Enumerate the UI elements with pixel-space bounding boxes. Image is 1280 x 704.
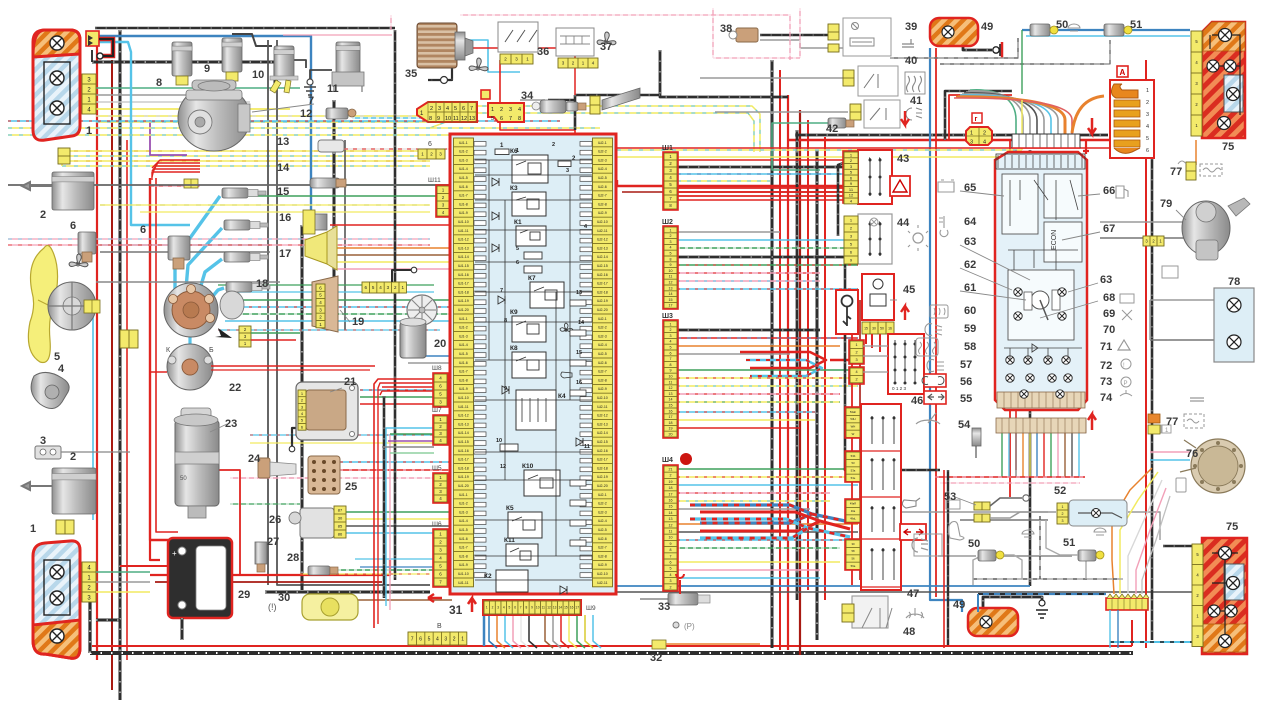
svg-text:15: 15 [669, 505, 673, 509]
svg-text:19: 19 [352, 316, 364, 328]
svg-text:15: 15 [669, 298, 673, 302]
svg-text:Ш2-6: Ш2-6 [598, 537, 607, 541]
wire wiper20 bundle [408, 355, 452, 357]
svg-text:39: 39 [905, 21, 917, 33]
relay K1 [516, 226, 546, 246]
heater icon 40 [907, 76, 922, 92]
svg-text:Ш2-9: Ш2-9 [598, 387, 607, 391]
svg-text:2: 2 [70, 451, 76, 463]
wire cyan mid-left vertical [92, 313, 94, 520]
svg-text:12: 12 [669, 386, 673, 390]
icon fuel pump 76 [1176, 478, 1186, 492]
svg-text:8: 8 [504, 318, 507, 324]
relay K7 [530, 282, 564, 308]
svg-text:Ш1-2: Ш1-2 [459, 150, 468, 154]
svg-text:Ш1-10: Ш1-10 [458, 572, 469, 576]
wire 49 vertical pair blue [930, 48, 962, 612]
sensor 33 lambda [640, 598, 668, 600]
svg-text:50: 50 [880, 326, 884, 330]
svg-text:15: 15 [576, 350, 582, 356]
svg-text:1: 1 [461, 636, 464, 642]
svg-text:11: 11 [542, 606, 546, 610]
arrow distributor [215, 328, 232, 338]
svg-text:Ш1-7: Ш1-7 [459, 546, 468, 550]
svg-text:4: 4 [670, 246, 672, 250]
svg-text:Ш1-14: Ш1-14 [458, 255, 469, 259]
svg-text:2: 2 [670, 234, 672, 238]
svg-text:2: 2 [855, 351, 857, 355]
svg-text:К8: К8 [510, 345, 518, 352]
svg-text:9: 9 [670, 542, 672, 546]
svg-text:В: В [437, 623, 442, 630]
fuel pump 2 top [52, 172, 94, 210]
svg-text:53ah: 53ah [850, 410, 857, 414]
svg-text:6: 6 [670, 351, 672, 355]
svg-text:Ш1-6: Ш1-6 [459, 537, 468, 541]
svg-text:1: 1 [516, 148, 519, 154]
svg-text:9: 9 [531, 606, 533, 610]
svg-text:7: 7 [411, 636, 414, 642]
svg-text:1: 1 [670, 228, 672, 232]
wire comb strip drops [1109, 610, 1111, 648]
wire black bus y136 [795, 134, 1108, 137]
icon turn 55 red [924, 391, 946, 404]
svg-text:Ш2-14: Ш2-14 [597, 431, 608, 435]
svg-text:5: 5 [670, 346, 672, 350]
wire 52 runs [900, 511, 1048, 513]
connector 53b [974, 514, 990, 522]
svg-text:3: 3 [670, 240, 672, 244]
svg-text:4: 4 [518, 107, 521, 113]
sensor 27 [255, 542, 267, 564]
resistors 77 top [1186, 162, 1196, 180]
svg-text:Ш2-4: Ш2-4 [598, 167, 607, 171]
wire spark plug cyan 2 [185, 228, 222, 300]
svg-text:62: 62 [964, 259, 976, 271]
svg-text:7: 7 [670, 554, 672, 558]
svg-text:11: 11 [669, 380, 673, 384]
svg-text:Ш2-10: Ш2-10 [597, 220, 608, 224]
svg-text:Ш2-3: Ш2-3 [598, 158, 607, 162]
cluster top pin row [998, 155, 1082, 168]
svg-text:49aR: 49aR [850, 502, 856, 506]
connector headlamp1 top [86, 31, 99, 46]
svg-text:Ш1-8: Ш1-8 [459, 202, 468, 206]
svg-text:Ш2-13: Ш2-13 [597, 246, 608, 250]
svg-text:Ш1-10: Ш1-10 [458, 396, 469, 400]
svg-text:Ш1-11: Ш1-11 [458, 405, 468, 409]
svg-text:5: 5 [670, 252, 672, 256]
cluster bottom tan strip [997, 392, 1085, 408]
svg-text:Ш1-3: Ш1-3 [459, 158, 468, 162]
svg-text:7: 7 [470, 106, 473, 112]
svg-text:16: 16 [570, 606, 574, 610]
svg-text:6: 6 [462, 106, 465, 112]
connector 321 right [1143, 236, 1164, 246]
fuse f10 [500, 444, 518, 451]
svg-text:Ш1-14: Ш1-14 [458, 431, 469, 435]
tail lamp 75 top [1202, 22, 1245, 138]
svg-text:Ш1-3: Ш1-3 [459, 510, 468, 514]
svg-text:51: 51 [1130, 19, 1142, 31]
svg-text:69: 69 [1103, 308, 1115, 320]
wire gray vert B [277, 40, 430, 585]
wire yellow bundle left [62, 150, 430, 152]
svg-text:3: 3 [670, 334, 672, 338]
wire trunk red 30 [824, 137, 826, 600]
svg-text:60: 60 [964, 305, 976, 317]
svg-text:Ш1-16: Ш1-16 [458, 273, 469, 277]
svg-text:7: 7 [520, 606, 522, 610]
svg-text:Ш1-20: Ш1-20 [458, 308, 469, 312]
wire bottom-left drop [88, 600, 91, 653]
fuse f5 [524, 252, 542, 259]
svg-text:14: 14 [669, 511, 673, 515]
connector 6pin [418, 149, 445, 159]
relay 40 [858, 66, 898, 96]
svg-text:19: 19 [669, 480, 673, 484]
svg-text:4: 4 [983, 140, 986, 146]
svg-text:11: 11 [669, 530, 673, 534]
svg-text:17: 17 [669, 415, 673, 419]
svg-text:15: 15 [277, 186, 289, 198]
svg-text:53: 53 [851, 461, 855, 465]
svg-text:11: 11 [584, 444, 590, 450]
svg-text:3: 3 [497, 606, 499, 610]
wire 34 black [548, 99, 575, 102]
svg-text:16: 16 [669, 409, 673, 413]
wire left trunk red [96, 40, 98, 660]
svg-text:Ш1-13: Ш1-13 [458, 246, 469, 250]
wire trunk black dash 3 [796, 130, 799, 600]
wire 79 feeds [1100, 221, 1185, 223]
sensor 12 [326, 108, 348, 119]
svg-text:16: 16 [888, 326, 892, 330]
svg-text:47: 47 [907, 588, 919, 600]
relay K4 [516, 390, 556, 430]
svg-text:Ш1-4: Ш1-4 [459, 343, 468, 347]
wire mid black verticals [574, 95, 577, 130]
svg-text:3: 3 [40, 435, 46, 447]
svg-text:К3: К3 [510, 185, 518, 192]
svg-text:6: 6 [70, 220, 76, 232]
valve 24 [258, 458, 270, 478]
svg-text:30: 30 [872, 326, 876, 330]
svg-text:Ш1-17: Ш1-17 [458, 458, 469, 462]
connector 19 [312, 276, 338, 332]
svg-text:Ш2-10: Ш2-10 [597, 572, 608, 576]
svg-text:55: 55 [960, 393, 972, 405]
diodes in box [492, 178, 499, 186]
svg-text:Ш1-18: Ш1-18 [458, 290, 469, 294]
svg-text:Ш2-17: Ш2-17 [597, 282, 608, 286]
svg-text:7: 7 [500, 288, 503, 294]
svg-text:5: 5 [516, 246, 519, 252]
red arrows misc [901, 306, 909, 320]
sensor 50 top [1030, 24, 1050, 36]
svg-text:Ш1-19: Ш1-19 [458, 299, 469, 303]
wire sh3 fan [677, 329, 820, 332]
relay K9 [512, 316, 546, 342]
svg-text:12: 12 [547, 606, 551, 610]
svg-text:Ш2-10: Ш2-10 [597, 396, 608, 400]
icon lowbeam 59 [925, 324, 942, 336]
svg-text:2: 2 [670, 328, 672, 332]
svg-text:Ш1-11: Ш1-11 [458, 581, 468, 585]
svg-text:40: 40 [905, 55, 917, 67]
wire q3 extra runs [250, 434, 440, 436]
wire alternator red fan [152, 160, 200, 168]
lamp 49 bottom [968, 608, 1018, 636]
svg-text:22: 22 [229, 382, 241, 394]
red key symbol [1083, 140, 1089, 154]
svg-text:5: 5 [54, 351, 60, 363]
connector B bottom [408, 632, 467, 645]
connector 18 [239, 326, 251, 347]
svg-text:Ш1-2: Ш1-2 [459, 502, 468, 506]
wire spark plug cyan 4 [207, 288, 224, 303]
wire 49a bundle blue/red [690, 505, 812, 523]
wire q1 extra yellows [100, 204, 430, 206]
spark plug 28 [308, 566, 330, 575]
icon seat 53 [948, 522, 964, 541]
svg-text:14: 14 [669, 398, 673, 402]
svg-text:16: 16 [669, 499, 673, 503]
svg-text:7: 7 [670, 357, 672, 361]
svg-text:Ш2-12: Ш2-12 [597, 414, 608, 418]
comb strip bottom-right [1106, 594, 1149, 610]
svg-text:1: 1 [1146, 88, 1149, 94]
svg-text:50: 50 [1056, 19, 1068, 31]
wire black dotted top y28 [95, 27, 395, 30]
svg-text:31: 31 [449, 603, 463, 617]
wire sh2 fan [677, 231, 780, 233]
starter 23 [174, 408, 219, 518]
connector B red [481, 90, 490, 99]
connector Sh8 [434, 374, 447, 406]
svg-text:11: 11 [327, 83, 339, 95]
connector Sh7 [434, 416, 447, 444]
wiper motor 20 [407, 295, 437, 325]
connector alt small [184, 179, 198, 188]
fuse block A [1110, 80, 1154, 158]
connector G [966, 113, 992, 146]
svg-text:43: 43 [897, 153, 909, 165]
svg-text:5: 5 [454, 106, 457, 112]
svg-text:К11: К11 [504, 537, 515, 544]
svg-text:4: 4 [855, 370, 857, 374]
svg-text:10: 10 [536, 606, 540, 610]
wire black seg vert C [301, 225, 304, 590]
plug 38 [736, 28, 758, 42]
wire 49top black [963, 42, 992, 50]
fuse box pin tabs [474, 142, 486, 147]
svg-text:11: 11 [453, 116, 459, 122]
svg-text:14: 14 [559, 606, 563, 610]
svg-text:6: 6 [428, 141, 432, 148]
wire bundle 25 area [340, 461, 452, 463]
svg-text:Ш2-16: Ш2-16 [597, 449, 608, 453]
svg-text:76: 76 [1186, 448, 1198, 460]
svg-text:13: 13 [669, 392, 673, 396]
icon temp 64 [939, 216, 948, 237]
svg-text:8: 8 [670, 548, 672, 552]
svg-text:Ш1-4: Ш1-4 [459, 167, 468, 171]
svg-text:10: 10 [445, 116, 451, 122]
svg-text:Ш2-17: Ш2-17 [597, 458, 608, 462]
wire 77top drop [1195, 140, 1197, 165]
svg-text:Ш1-12: Ш1-12 [458, 414, 469, 418]
svg-text:16: 16 [279, 212, 291, 224]
svg-text:13: 13 [277, 136, 289, 148]
svg-text:Ш1-11: Ш1-11 [458, 229, 468, 233]
sensor 54 [972, 428, 981, 446]
svg-text:7: 7 [509, 116, 512, 122]
wire bottom black bus [90, 651, 1133, 655]
sensor 8 [172, 42, 192, 76]
svg-text:49: 49 [981, 21, 993, 33]
svg-text:2: 2 [983, 131, 986, 137]
wire red bus y186 [617, 185, 858, 187]
wire left trunk red2 [126, 140, 128, 660]
svg-text:5: 5 [1146, 136, 1149, 142]
relay K10 [524, 470, 560, 496]
svg-text:73: 73 [1100, 376, 1112, 388]
svg-text:Б: Б [209, 347, 214, 354]
svg-text:Ш1-15: Ш1-15 [458, 264, 469, 268]
ignition switch 45 [862, 274, 894, 320]
svg-text:Ш2-1: Ш2-1 [598, 141, 607, 145]
svg-text:2: 2 [855, 378, 857, 382]
wire alternator purple [150, 120, 187, 155]
svg-text:Ш1-8: Ш1-8 [459, 554, 468, 558]
svg-text:Ш2-5: Ш2-5 [598, 352, 607, 356]
column switch 47 [861, 404, 901, 590]
wire sh9 blue main [483, 615, 486, 646]
svg-text:Ш2-19: Ш2-19 [597, 299, 608, 303]
svg-text:28: 28 [287, 552, 299, 564]
svg-text:P: P [1124, 381, 1128, 387]
svg-text:12: 12 [849, 193, 854, 198]
svg-text:Ш1-13: Ш1-13 [458, 422, 469, 426]
wire 51b [1000, 555, 1072, 557]
svg-text:17: 17 [669, 304, 673, 308]
svg-text:59: 59 [964, 323, 976, 335]
svg-text:А: А [1120, 68, 1126, 77]
fan icon small [69, 254, 88, 267]
svg-text:6: 6 [500, 116, 503, 122]
svg-text:Ш1-8: Ш1-8 [459, 378, 468, 382]
svg-text:13: 13 [469, 116, 475, 122]
diode cluster [1032, 344, 1038, 352]
svg-text:37: 37 [600, 41, 612, 53]
svg-text:3: 3 [509, 107, 512, 113]
svg-text:6: 6 [140, 224, 146, 236]
svg-text:17: 17 [279, 248, 291, 260]
svg-text:Ш1-12: Ш1-12 [458, 238, 469, 242]
horn 17 [305, 232, 327, 264]
icon battery 65 [938, 180, 954, 192]
icon roof lamp 50 [1068, 24, 1080, 31]
wire pink dashed long [230, 477, 452, 479]
svg-text:74: 74 [1100, 392, 1113, 404]
relay 39 [843, 18, 891, 56]
connector Sh9 [483, 600, 581, 615]
svg-text:10: 10 [669, 269, 673, 273]
svg-text:50: 50 [180, 476, 187, 482]
svg-text:24: 24 [248, 453, 261, 465]
icon horn K8 [561, 372, 572, 378]
icon w1 right [1152, 425, 1161, 433]
svg-text:2: 2 [492, 606, 494, 610]
wire coil29 red hoop [150, 540, 160, 560]
connector 77 bottom [1148, 414, 1160, 423]
sensor 32 [652, 640, 666, 649]
svg-text:2: 2 [670, 585, 672, 589]
svg-text:Ш9: Ш9 [586, 605, 596, 612]
sensor 11 [336, 42, 360, 74]
washer hose 9-10-11 [232, 34, 272, 46]
svg-text:77: 77 [1170, 166, 1182, 178]
svg-text:(Р): (Р) [684, 622, 695, 631]
svg-text:0 1 2 3: 0 1 2 3 [892, 386, 906, 391]
svg-text:Ш11: Ш11 [428, 177, 441, 184]
svg-text:1: 1 [30, 523, 36, 535]
connector 53a [974, 502, 990, 510]
relay K3 [512, 192, 546, 216]
svg-text:44: 44 [897, 217, 910, 229]
wire right mid harness 78 [1150, 299, 1215, 301]
svg-text:9: 9 [670, 263, 672, 267]
svg-text:г: г [975, 116, 978, 123]
sensor 9 [222, 38, 242, 72]
wire blue bus y594 [978, 593, 1106, 595]
svg-text:6: 6 [1146, 148, 1149, 154]
svg-text:2: 2 [1146, 100, 1149, 106]
svg-text:Ш2-15: Ш2-15 [597, 264, 608, 268]
wire 26 relay runs [340, 511, 452, 513]
svg-text:49aL: 49aL [850, 517, 856, 521]
wiper icon 47 [916, 413, 940, 424]
svg-text:15: 15 [564, 606, 568, 610]
svg-text:27: 27 [267, 536, 279, 548]
connector headlamp1 [82, 74, 96, 114]
relay 48 [852, 596, 888, 628]
wire right black riser [1151, 95, 1154, 640]
svg-text:49a: 49a [851, 509, 856, 513]
icon sun 44 [913, 233, 923, 243]
box inner wires [475, 160, 592, 580]
svg-text:25: 25 [345, 481, 357, 493]
wire top blue [99, 36, 311, 215]
wire left sensors gray [100, 244, 270, 246]
svg-text:Ш2-9: Ш2-9 [598, 563, 607, 567]
svg-text:14: 14 [578, 320, 585, 326]
svg-text:К1: К1 [514, 219, 522, 226]
svg-text:1: 1 [1062, 505, 1064, 509]
icon fan K9 [560, 323, 573, 332]
svg-text:Ш2-2: Ш2-2 [598, 326, 607, 330]
wire gray vert A [267, 40, 269, 585]
svg-text:8: 8 [670, 363, 672, 367]
svg-text:30: 30 [851, 542, 855, 546]
svg-text:33: 33 [658, 601, 670, 613]
wire red bus y192 [622, 191, 852, 193]
wire black seg vert D [333, 100, 336, 330]
wire headlight1 feeds [96, 87, 300, 89]
vac unit 18 [220, 291, 244, 319]
svg-text:17: 17 [575, 606, 579, 610]
